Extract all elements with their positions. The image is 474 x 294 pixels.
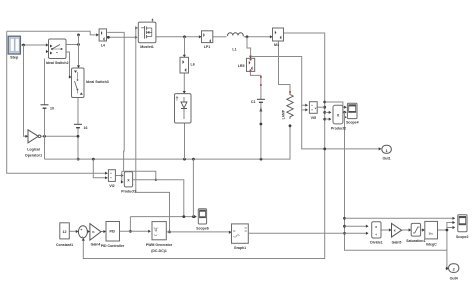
source Constant1 bbox=[56, 223, 73, 247]
wire battery2 to bus bbox=[77, 128, 79, 159]
svg-text:x: x bbox=[375, 225, 377, 229]
resistor load bbox=[282, 93, 294, 120]
svg-text:VI5: VI5 bbox=[311, 116, 316, 120]
wire LR5 to C1 column bbox=[250, 71, 261, 99]
svg-text:Product3: Product3 bbox=[121, 190, 136, 194]
arrowhead into Out4 bbox=[446, 267, 449, 270]
junction bus diode branch bbox=[183, 158, 186, 161]
arrowhead into Ideal Switch2 bbox=[46, 43, 49, 46]
wire gate lead bbox=[136, 27, 138, 29]
svg-text:Scope4: Scope4 bbox=[346, 121, 359, 125]
svg-text:1/s: 1/s bbox=[429, 232, 434, 236]
junction IntegC out bbox=[446, 229, 449, 232]
svg-text:Saturation1: Saturation1 bbox=[406, 239, 425, 243]
junction duty on Product3 out bbox=[155, 179, 157, 181]
svg-text:Scope2: Scope2 bbox=[456, 235, 469, 239]
wire Product2 to Scope4 bbox=[343, 111, 346, 113]
source battery 10 bbox=[41, 105, 55, 111]
port marker C1 column b bbox=[260, 84, 262, 86]
wire IntegC out bbox=[438, 229, 447, 231]
wire PID to PWM bbox=[120, 230, 151, 232]
wire Saturation1 to IntegC bbox=[421, 229, 425, 231]
wire Switch2 to Switch3 gate bbox=[66, 52, 71, 77]
svg-text:PID: PID bbox=[109, 230, 115, 234]
wire VI2 to Product3 bbox=[115, 175, 123, 177]
wire Mosfet to LP1 bbox=[156, 36, 201, 38]
junction LR5 tap bbox=[246, 35, 249, 38]
branch L4 bbox=[99, 29, 106, 48]
port Out1 bbox=[382, 145, 392, 160]
arrowhead into NOT gate bbox=[25, 135, 28, 138]
arrowhead into Scope4 in3 bbox=[344, 116, 347, 119]
arrowhead into Gain4 bbox=[87, 230, 90, 233]
svg-text:M1: M1 bbox=[274, 43, 279, 47]
wire C1 column lower bbox=[260, 102, 262, 159]
diode Diode1 bbox=[175, 94, 192, 123]
wire LR5 top to VI5 column bbox=[251, 57, 381, 149]
svg-text:PID Controller: PID Controller bbox=[101, 244, 125, 248]
wire L1 to M1 bbox=[244, 36, 273, 38]
port marker LR5 bottom bbox=[250, 69, 252, 71]
wire V column right bbox=[345, 112, 447, 250]
wire battery1 column lower bbox=[44, 109, 46, 160]
integrator IntegC bbox=[425, 221, 438, 246]
branch LP1 bbox=[202, 31, 213, 49]
wire stub VI5 in1 bbox=[302, 104, 308, 106]
svg-text:Step: Step bbox=[10, 55, 19, 59]
arrowhead into Scope6 bbox=[194, 215, 197, 218]
junction loop upper bbox=[323, 101, 326, 104]
arrowhead into PWM bbox=[148, 230, 151, 233]
arrowhead into M1 bbox=[270, 35, 273, 38]
svg-text:PWM Generator: PWM Generator bbox=[146, 243, 173, 247]
junction loop VI5 out bbox=[323, 106, 326, 109]
svg-text:16: 16 bbox=[84, 126, 88, 130]
arrowhead into VI2 in2 bbox=[105, 176, 108, 179]
wire VI5 out bbox=[317, 106, 325, 108]
transistor Mosfet1 bbox=[138, 22, 156, 49]
arrowhead into LP1 bbox=[199, 35, 202, 38]
arrowhead into PID bbox=[103, 230, 106, 233]
port marker LR5 top bbox=[250, 59, 252, 61]
svg-text:LR5: LR5 bbox=[238, 64, 245, 68]
arrowhead into Mosfet bbox=[135, 36, 138, 39]
wire L6 to Diode1 bbox=[183, 73, 185, 93]
wire duty horizontal bbox=[122, 171, 156, 180]
switch U1 Ideal Switch2 bbox=[46, 39, 69, 65]
junction battery2 on bus bbox=[77, 158, 80, 161]
junction V column divide bbox=[343, 225, 346, 228]
arrowhead into Scope2 in1 bbox=[453, 217, 456, 220]
wire stub Scope4 in3 bbox=[345, 116, 347, 118]
junction V column cross bbox=[343, 232, 346, 235]
svg-text:v: v bbox=[315, 106, 317, 110]
arrowhead into Product3 in2 bbox=[121, 180, 124, 183]
junction PID out bbox=[129, 230, 132, 233]
arrowhead into Product2 in1 bbox=[329, 111, 332, 114]
svg-text:L6: L6 bbox=[191, 63, 195, 67]
wire Ideal Switch3 to battery2 bbox=[77, 98, 79, 125]
gain Gain5 bbox=[392, 223, 402, 244]
svg-text:C1: C1 bbox=[251, 100, 256, 104]
arrowhead into Divide1 in1 bbox=[366, 225, 369, 228]
wire M1 to resistor bbox=[279, 41, 291, 92]
wire L4 to Mosfet bbox=[107, 36, 138, 38]
svg-text:Out1: Out1 bbox=[383, 156, 391, 160]
wire to Scope2 in1 bbox=[345, 217, 455, 219]
wire Diode1 to bus bbox=[184, 123, 186, 159]
wire PID tap to Scope6 bbox=[130, 216, 196, 218]
junction loop mid bbox=[323, 111, 326, 114]
junction diode branch top bbox=[183, 35, 186, 38]
scope Scope2 bbox=[456, 215, 469, 239]
arrowhead into Ideal Switch2 gate bbox=[46, 50, 49, 53]
arrowhead into Scope4 in2 bbox=[344, 111, 347, 114]
wire duty to Product3 bbox=[122, 171, 123, 182]
arrowhead into IntegC bbox=[422, 228, 425, 231]
junction staircase on PWM out bbox=[168, 231, 171, 234]
arrowhead into Mosfet gate bbox=[135, 26, 138, 29]
arrowhead into Ideal Switch3 top bbox=[77, 65, 80, 68]
port marker resistor top bbox=[289, 91, 291, 93]
svg-text:Logical: Logical bbox=[27, 148, 40, 152]
wire Step to Ideal Switch2 bbox=[19, 44, 48, 46]
arrowhead into VI5 in2 bbox=[305, 108, 308, 111]
saturation Saturation1 bbox=[406, 223, 425, 243]
svg-text:÷: ÷ bbox=[375, 233, 377, 237]
svg-text:L1: L1 bbox=[232, 48, 236, 52]
junction switch column bbox=[77, 43, 80, 46]
junction loop lower bbox=[323, 118, 326, 121]
arrowhead into VI2 in1 bbox=[105, 172, 108, 175]
gain Gain4 bbox=[90, 224, 101, 247]
arrowhead into LR5 bbox=[249, 56, 252, 59]
svg-text:(DC-DC)1: (DC-DC)1 bbox=[151, 249, 167, 253]
junction bus scope6 branch bbox=[192, 158, 195, 161]
wire Gain5 to Saturation1 bbox=[402, 229, 411, 231]
branch LR5 bbox=[238, 58, 255, 71]
junction bus C1 branch bbox=[260, 158, 263, 161]
wire stub Product2 in1 bbox=[325, 111, 331, 113]
svg-text:Graph1: Graph1 bbox=[234, 246, 246, 250]
wire Sum to Gain4 bbox=[87, 231, 89, 233]
port marker C1 column a bbox=[260, 76, 262, 78]
wire IntegC out up bbox=[447, 222, 455, 224]
wire stub VI5 in2 bbox=[302, 109, 308, 111]
wire tap to LR5 bbox=[247, 37, 251, 58]
junction V column scope2 top bbox=[343, 217, 346, 220]
wire to Divide1 in1 bbox=[345, 225, 369, 227]
wire M1 output loop bbox=[83, 33, 324, 259]
multiplier Product3 bbox=[121, 172, 136, 194]
svg-text:L4: L4 bbox=[101, 44, 105, 48]
wire gate column bbox=[136, 28, 170, 232]
junction bus VI2 branch bbox=[92, 158, 95, 161]
arrowhead into Scope2 in3 bbox=[453, 226, 456, 229]
sensor VI5 bbox=[309, 102, 317, 120]
junction Step output branch bbox=[22, 44, 25, 47]
wire battery1 column upper bbox=[44, 59, 46, 105]
sensor VI2 bbox=[108, 170, 115, 188]
wire PID tap bbox=[129, 217, 131, 232]
wire Divide1 to Gain5 bbox=[381, 229, 391, 231]
wire top feed bus bbox=[7, 31, 99, 35]
arrowhead into L4 bbox=[96, 33, 99, 36]
wire Ideal Switch2 out bbox=[66, 44, 79, 46]
wire branch L6 top bbox=[184, 37, 186, 57]
wire bus drop to scope6 bbox=[192, 159, 194, 217]
svg-text:+: + bbox=[80, 228, 82, 232]
svg-text:Mosfet1: Mosfet1 bbox=[140, 45, 154, 49]
svg-text:LP1: LP1 bbox=[204, 45, 211, 49]
wire Constant1 to Sum bbox=[69, 230, 78, 232]
wire to Out4 bbox=[447, 250, 448, 268]
source battery 16 bbox=[74, 124, 88, 130]
svg-text:Out4: Out4 bbox=[450, 276, 458, 280]
svg-text:Ideal Switch3: Ideal Switch3 bbox=[86, 80, 109, 84]
svg-text:Gain5: Gain5 bbox=[392, 241, 402, 245]
svg-text:10: 10 bbox=[50, 107, 54, 111]
port Out4 bbox=[449, 264, 459, 281]
junction loop Out1 cross bbox=[323, 148, 326, 151]
svg-text:Operator1: Operator1 bbox=[25, 154, 42, 158]
switch U2 Ideal Switch3 bbox=[72, 68, 109, 98]
source Step bbox=[8, 36, 20, 59]
svg-text:Scope6: Scope6 bbox=[196, 226, 209, 230]
arrowhead into Graph1 bbox=[229, 231, 232, 234]
wire NOT gate output bbox=[41, 135, 78, 137]
wire LP1 to L1 bbox=[213, 36, 227, 38]
wire bus to VI2 in2 bbox=[93, 159, 107, 178]
arrowhead into Ideal Switch3 gate bbox=[69, 75, 72, 78]
subsystem Graph1 bbox=[232, 224, 249, 250]
svg-text:12: 12 bbox=[62, 230, 66, 234]
svg-text:LAMP: LAMP bbox=[282, 109, 286, 119]
svg-text:Constant1: Constant1 bbox=[56, 243, 73, 247]
junction NOT out at battery1 column bbox=[43, 135, 46, 138]
arrowhead into Sum feedback bbox=[82, 238, 85, 241]
generator PWM bbox=[146, 222, 173, 254]
junction Out4 corner bbox=[446, 267, 448, 269]
inductor L1 bbox=[227, 33, 244, 52]
wire Product3 out bbox=[133, 180, 184, 217]
arrowhead into Saturation1 bbox=[409, 228, 412, 231]
divider Divide1 bbox=[370, 222, 383, 245]
svg-text:Ideal Switch2: Ideal Switch2 bbox=[46, 61, 69, 65]
arrowhead into Scope2 in2 bbox=[453, 221, 456, 224]
wire PWM to Graph1 bbox=[166, 231, 231, 233]
arrowhead into Out1 bbox=[379, 147, 382, 150]
wire left sense loop bbox=[7, 31, 108, 173]
svg-text:Gain4: Gain4 bbox=[91, 242, 101, 246]
junction C1 column bbox=[260, 123, 263, 126]
wire ground bus bbox=[45, 126, 291, 159]
junction Product2 out bbox=[343, 111, 345, 113]
branch M1 bbox=[273, 28, 284, 47]
wire column to Ideal Switch3 bbox=[78, 35, 80, 68]
svg-text:VI2: VI2 bbox=[109, 184, 114, 188]
scope Scope4 bbox=[346, 103, 359, 124]
wire to Scope4 in1 bbox=[325, 102, 347, 107]
arrowhead into Divide1 in2 bbox=[366, 232, 369, 235]
summer Sum bbox=[78, 226, 87, 239]
capacitor C1 bbox=[251, 99, 265, 111]
multiplier Product2 bbox=[331, 105, 346, 130]
arrowhead into Scope4 in1 bbox=[344, 106, 347, 109]
wire L4 upper tap bbox=[107, 32, 124, 171]
wire Graph1 to Divide1 bbox=[249, 232, 368, 234]
junction bus drop scope6 bbox=[192, 215, 195, 218]
arrowhead into Gain5 bbox=[389, 228, 392, 231]
wire Gain4 to PID bbox=[101, 231, 106, 233]
wire IntegC out mid bbox=[447, 227, 455, 229]
junction scope6 drop bbox=[182, 215, 185, 218]
wire stub Product2 in2 bbox=[325, 118, 331, 120]
wire Step branch to NOT gate bbox=[24, 45, 28, 136]
arrowhead into Diode1 bbox=[183, 91, 186, 94]
scope Scope6 bbox=[196, 209, 209, 231]
junction NOT out end bbox=[77, 135, 80, 138]
arrowhead into Product3 in1 bbox=[121, 174, 124, 177]
svg-text:Product2: Product2 bbox=[331, 127, 346, 131]
arrowhead into VI5 in1 bbox=[305, 104, 308, 107]
arrowhead into Sum bbox=[76, 230, 79, 233]
junction L4 output bbox=[107, 36, 110, 39]
arrowhead into L6 bbox=[183, 55, 186, 58]
branch L6 bbox=[180, 57, 195, 73]
svg-text:Divide1: Divide1 bbox=[370, 241, 383, 245]
junction resistor bottom bbox=[289, 124, 292, 127]
pin m stub of Mosfet1 bbox=[151, 18, 153, 22]
arrowhead into Product2 in2 bbox=[329, 117, 332, 120]
gate Logical Operator1 bbox=[25, 130, 42, 158]
svg-text:IntegC: IntegC bbox=[426, 242, 437, 246]
junction top feed / switch column bbox=[77, 34, 80, 37]
controller PID bbox=[101, 222, 125, 249]
